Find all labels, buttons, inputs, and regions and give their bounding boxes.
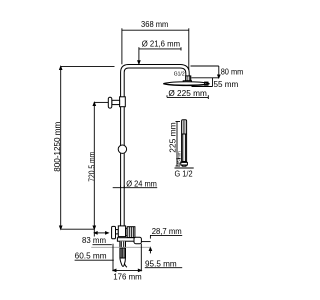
right dimension drop line [142, 235, 152, 253]
leader Ø 24 mm [113, 186, 158, 188]
svg-text:368 mm: 368 mm [141, 20, 169, 29]
dimension 800-1250 mm [60, 66, 115, 229]
shower column pipe [121, 65, 190, 227]
dimension 80 mm [191, 66, 221, 78]
svg-text:G 1/2: G 1/2 [175, 169, 194, 178]
svg-text:45 mm: 45 mm [176, 151, 181, 165]
hand shower [181, 120, 188, 166]
mixer body assembly [112, 226, 135, 239]
svg-text:176 mm: 176 mm [113, 273, 142, 282]
tub spout [120, 241, 127, 267]
dimension 225 mm (hand shower) [176, 122, 181, 167]
wall bracket [108, 97, 125, 108]
hose outlet cap [134, 237, 141, 244]
slider knob [118, 145, 126, 153]
svg-text:95.5 mm: 95.5 mm [145, 259, 177, 268]
mixer knob knurl lines [129, 227, 133, 237]
svg-text:28,7 mm: 28,7 mm [152, 227, 182, 236]
dimension 720.5 mm [93, 102, 108, 229]
svg-text:80 mm: 80 mm [221, 68, 244, 77]
mixer bottom plate [117, 238, 134, 242]
dimension line Ø 21,6 mm [138, 47, 181, 64]
svg-text:Ø 21,6 mm: Ø 21,6 mm [142, 40, 181, 49]
svg-text:720.5 mm: 720.5 mm [88, 151, 97, 181]
dimension 55 mm [192, 78, 219, 87]
dimension 176 mm [113, 244, 141, 272]
dimension 83 mm [93, 229, 112, 245]
dimension 95.5 mm underline [145, 267, 182, 269]
svg-text:55 mm: 55 mm [214, 80, 239, 89]
G 1/2 leader (hand shower) [175, 167, 194, 169]
svg-text:225 mm: 225 mm [169, 122, 178, 153]
dimension 60.5 mm underline [75, 259, 114, 261]
dimension Ø 225 mm underline [167, 95, 208, 99]
dimension 28,7 mm underline [150, 234, 182, 236]
overhead shower connector G1/2 [186, 76, 191, 81]
svg-text:60.5 mm: 60.5 mm [75, 251, 107, 260]
overhead shower head disc [164, 81, 210, 86]
svg-text:G1/2: G1/2 [174, 71, 185, 77]
tub rim reference line [91, 246, 150, 248]
svg-text:Ø 24 mm: Ø 24 mm [126, 179, 157, 188]
svg-text:83 mm: 83 mm [82, 236, 106, 245]
svg-text:800-1250 mm: 800-1250 mm [53, 121, 62, 171]
dimension 368 mm [122, 28, 189, 70]
svg-text:Ø 225 mm: Ø 225 mm [168, 89, 207, 98]
